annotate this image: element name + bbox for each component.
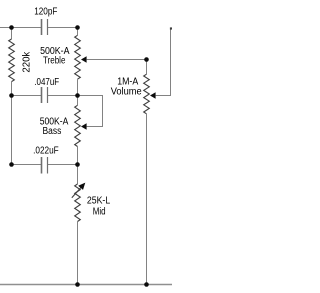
wire: middle horizontal y=95.5 (left of .047uF cap) xyxy=(12,95,42,97)
tone stack schematic (treble/bass/mid/volume) xyxy=(0,0,172,293)
svg-text:Bass: Bass xyxy=(43,126,62,137)
node: treble top junction xyxy=(75,25,80,30)
svg-text:.047uF: .047uF xyxy=(34,77,59,88)
bass wiper arrow xyxy=(81,123,87,130)
svg-text:220k: 220k xyxy=(22,51,33,73)
resistor 220k (vertical zigzag, left column) xyxy=(9,28,15,96)
treble wiper arrow xyxy=(81,56,87,63)
potentiometer 25K-L Mid (element body) xyxy=(75,165,81,285)
node: input / 220k top junction xyxy=(9,25,14,30)
wire: middle horizontal y=95.5 (right of .047uF cap) xyxy=(48,95,78,97)
node: volume top junction xyxy=(144,57,149,62)
volume wiper arrow xyxy=(150,92,156,99)
capacitor .047uF (plates) xyxy=(42,87,48,103)
svg-text:Mid: Mid xyxy=(93,207,106,218)
svg-text:25K-L: 25K-L xyxy=(87,195,111,206)
svg-text:Volume: Volume xyxy=(111,87,142,98)
wire: treble wiper to volume top (y=59.5) xyxy=(87,59,147,61)
wire: top horizontal y=27.5 (120pF cap to treble top) xyxy=(48,27,78,29)
svg-text:Treble: Treble xyxy=(43,56,66,67)
node: mid bottom / ground junction xyxy=(75,282,80,287)
wire: lower horizontal y=164.5 (right of .022uF cap) xyxy=(48,164,78,166)
node: bass bottom / mid top junction xyxy=(75,162,80,167)
potentiometer 500K-A Treble (element body) xyxy=(75,28,81,96)
node: 220k bottom / .047uF junction xyxy=(9,93,14,98)
potentiometer 1M-A Volume (element body) xyxy=(144,60,150,285)
mid wiper arrow (diagonal, variable-resistor style) xyxy=(72,183,86,198)
potentiometer 500K-A Bass (element body) xyxy=(75,96,81,165)
value label .022uF xyxy=(33,146,59,157)
node: left column / .022uF junction xyxy=(9,162,14,167)
wire: volume wiper to output riser (right edge) xyxy=(156,29,171,96)
svg-text:.022uF: .022uF xyxy=(33,146,59,157)
node: volume bottom / ground junction xyxy=(144,282,149,287)
capacitor 120pF (plates) xyxy=(42,19,48,35)
wire: input net, top horizontal y=27.5 (left of 120pF cap) xyxy=(0,27,41,29)
wire: lower horizontal y=164.5 (left of .022uF cap) xyxy=(12,164,42,166)
label 25K-L Mid xyxy=(87,195,111,217)
value label 120pF xyxy=(34,7,57,18)
output terminal stub (top right) xyxy=(170,27,172,29)
wire: left column between nodes y=95.5 and y=164.5 xyxy=(11,96,13,165)
value label 220k (rotated 90) xyxy=(22,51,33,73)
node: treble bottom / bass top junction xyxy=(75,93,80,98)
wire: bass wiper loop (top node to wiper) xyxy=(78,96,103,127)
svg-text:120pF: 120pF xyxy=(34,7,57,18)
label 500K-A Treble xyxy=(40,46,70,67)
label 1M-A Volume xyxy=(111,77,142,98)
value label .047uF xyxy=(34,77,59,88)
wire: ground bus (bottom horizontal, full width y=284.5) xyxy=(0,284,172,286)
label 500K-A Bass xyxy=(40,117,69,138)
capacitor .022uF (plates) xyxy=(42,157,48,174)
